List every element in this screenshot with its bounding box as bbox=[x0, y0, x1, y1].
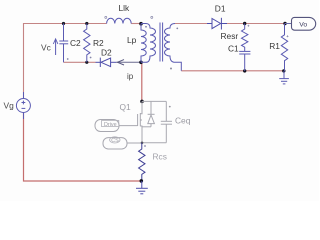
node: transformer bottom junction bbox=[139, 61, 143, 65]
polarity dot secondary bbox=[170, 68, 172, 70]
node: source/CS junction bbox=[141, 142, 144, 145]
node: C2 top junction bbox=[62, 22, 65, 25]
diode D1 bbox=[207, 18, 227, 30]
transformer core bbox=[160, 23, 163, 62]
probe arrow Vc bbox=[55, 40, 57, 55]
wire: left rail bottom + bottom rail bbox=[24, 113, 142, 181]
svg-text:Llk: Llk bbox=[119, 3, 131, 13]
node: Resr top junction bbox=[243, 22, 246, 25]
MOSFET body diode (gray) bbox=[148, 101, 155, 126]
node: R1 bottom junction bbox=[282, 69, 285, 72]
polarity mark primary bbox=[151, 16, 153, 18]
inductor Lp bbox=[141, 24, 146, 63]
voltage source Vg bbox=[16, 92, 30, 119]
wire: C2 to R2 to D2 bottom segment bbox=[64, 61, 96, 63]
diode D2 bbox=[96, 58, 117, 67]
svg-text:Lp: Lp bbox=[127, 35, 137, 45]
wire: primary bottom vertical (red) bbox=[141, 62, 143, 101]
polarity dot secondary top bbox=[176, 28, 178, 30]
wire: D1 cathode to Vo junctions bbox=[227, 23, 285, 25]
node: R2 top junction bbox=[85, 22, 88, 25]
drive block bbox=[95, 120, 119, 132]
polarity dot C2 bbox=[67, 58, 69, 60]
capacitor Ceq (gray) bbox=[142, 101, 172, 142]
wire: secondary top to D1 bbox=[175, 23, 207, 25]
svg-text:C1: C1 bbox=[228, 44, 239, 54]
polarity mark Rcs bbox=[144, 145, 146, 147]
wire: top rail after Llk to transformer dot bbox=[131, 23, 141, 25]
resistor Rcs bbox=[139, 143, 145, 181]
svg-text:Vo: Vo bbox=[299, 22, 307, 29]
polarity mark R1 bbox=[287, 35, 289, 37]
svg-text:R2: R2 bbox=[93, 38, 104, 48]
polarity dot Ceq bbox=[169, 106, 171, 108]
node: ground junction bottom bbox=[140, 179, 144, 183]
node: transformer top junction bbox=[139, 22, 143, 26]
polarity dot Llk bbox=[105, 16, 107, 18]
resistor R2 bbox=[84, 24, 90, 63]
transformer secondary winding bbox=[165, 24, 182, 71]
svg-text:Rcs: Rcs bbox=[153, 152, 167, 162]
svg-text:Resr: Resr bbox=[221, 31, 239, 41]
transformer primary winding bbox=[141, 24, 156, 63]
svg-text:D2: D2 bbox=[101, 48, 112, 58]
node: R1/Vo top junction bbox=[283, 22, 286, 25]
CS block bbox=[103, 138, 127, 149]
node: MOSFET drain junction bbox=[140, 100, 144, 104]
capacitor C1 bbox=[239, 51, 250, 71]
node: C1 bottom junction bbox=[243, 69, 246, 72]
polarity mark Resr bbox=[247, 25, 249, 27]
svg-text:Vc: Vc bbox=[41, 43, 51, 53]
svg-text:R1: R1 bbox=[269, 41, 280, 51]
ground right bbox=[279, 71, 289, 84]
MOSFET Q1 (gray) bbox=[138, 101, 167, 142]
node: R2 bottom junction bbox=[85, 61, 88, 64]
wire: gate bbox=[119, 125, 138, 127]
wire: ip arrowhead bbox=[118, 60, 125, 65]
wire: secondary bottom right rail bbox=[181, 70, 283, 72]
ground bottom bbox=[136, 181, 148, 194]
wire: CS sense bbox=[127, 142, 142, 144]
svg-text:Ceq: Ceq bbox=[175, 116, 191, 126]
svg-text:C2: C2 bbox=[70, 38, 81, 48]
resistor Resr bbox=[242, 24, 248, 52]
polarity dot R2 bbox=[90, 57, 92, 59]
svg-text:ip: ip bbox=[127, 72, 134, 81]
svg-text:Drive: Drive bbox=[104, 122, 117, 128]
svg-text:CS: CS bbox=[111, 138, 119, 144]
wire: left rail top segment bbox=[24, 24, 107, 99]
wire: D2 to transformer bottom with ip arrow bbox=[116, 61, 141, 63]
svg-text:Vg: Vg bbox=[4, 101, 15, 111]
resistor R1 bbox=[281, 24, 287, 71]
svg-text:Q1: Q1 bbox=[120, 102, 132, 112]
inductor Llk bbox=[107, 18, 132, 23]
svg-text:D1: D1 bbox=[215, 4, 226, 14]
probe label Vo bbox=[285, 23, 292, 25]
capacitor C2 bbox=[59, 24, 68, 63]
polarity dot Lp bbox=[145, 26, 147, 28]
